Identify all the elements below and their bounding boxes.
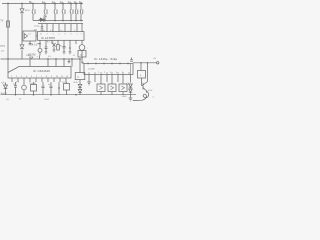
svg-text:IC: 1446μ - 512μ: IC: 1446μ - 512μ bbox=[94, 57, 118, 61]
ground bbox=[129, 98, 133, 101]
wire bbox=[58, 82, 60, 95]
svg-text:12: 12 bbox=[66, 76, 68, 78]
resistor R5 bbox=[64, 84, 70, 91]
diode D8 bbox=[78, 90, 82, 95]
U2 bottom pin wires bbox=[12, 78, 66, 82]
U3 pin ticks bbox=[98, 72, 123, 74]
U2 pin numbers bbox=[11, 76, 68, 78]
svg-text:9: 9 bbox=[51, 76, 52, 78]
svg-text:+: + bbox=[87, 48, 89, 50]
LED D9 bbox=[129, 84, 133, 89]
wire bbox=[79, 59, 81, 84]
wire curved emitter return bbox=[133, 92, 149, 101]
svg-text:1404: 1404 bbox=[44, 99, 50, 101]
wire box to IC bbox=[36, 35, 38, 37]
ground bbox=[69, 52, 72, 54]
capacitor C4 bbox=[62, 4, 65, 21]
svg-text:2: 2 bbox=[16, 76, 17, 78]
bus wire lower bbox=[38, 23, 83, 25]
top supply rail bbox=[2, 3, 83, 5]
svg-text:7V: 7V bbox=[0, 19, 3, 23]
svg-text:3: 3 bbox=[71, 33, 72, 35]
diode D10 bbox=[129, 89, 133, 98]
U3 internal pin ticks bbox=[89, 72, 129, 75]
capacitor C8 electrolytic below U1 bbox=[39, 44, 41, 48]
svg-text:1: 1 bbox=[98, 72, 99, 74]
rail value labels bbox=[29, 0, 82, 4]
terminal +B bbox=[157, 62, 159, 64]
connector box J1 bbox=[97, 84, 105, 92]
svg-text:R: R bbox=[60, 46, 62, 48]
IC U2 CXA1619 body bbox=[8, 67, 71, 79]
svg-text:14V4: 14V4 bbox=[122, 96, 128, 98]
buffer triangle in L4 bbox=[24, 34, 27, 39]
box L4 bbox=[23, 31, 36, 41]
capacitor C2 bbox=[44, 4, 47, 21]
svg-text:0k7R: 0k7R bbox=[74, 82, 79, 84]
ground bbox=[53, 50, 56, 52]
ground bbox=[87, 80, 91, 85]
svg-text:7k 0.5: 7k 0.5 bbox=[31, 45, 38, 47]
svg-text:2: 2 bbox=[104, 72, 105, 74]
zener diode D1 bbox=[20, 9, 24, 13]
resistor R1 on left wire bbox=[7, 21, 10, 27]
svg-text:2: 2 bbox=[59, 33, 60, 35]
svg-text:7: 7 bbox=[37, 57, 39, 59]
capacitor C15 bbox=[50, 82, 53, 95]
svg-text:5: 5 bbox=[53, 33, 54, 35]
svg-text:11: 11 bbox=[40, 33, 42, 35]
junction dots on wire A bbox=[7, 58, 73, 60]
svg-text:10.4μ: 10.4μ bbox=[34, 26, 40, 28]
wire zener branch bbox=[21, 4, 23, 60]
svg-text:1μ: 1μ bbox=[42, 0, 45, 4]
svg-text:7: 7 bbox=[41, 76, 42, 78]
svg-text:3.5V: 3.5V bbox=[148, 90, 153, 92]
svg-text:1μ: 1μ bbox=[74, 0, 77, 4]
svg-text:1: 1 bbox=[77, 33, 78, 35]
svg-text:4: 4 bbox=[116, 72, 117, 74]
svg-text:IC: CXA1619: IC: CXA1619 bbox=[33, 69, 50, 73]
svg-text:100μ16: 100μ16 bbox=[29, 83, 37, 85]
svg-text:1N60: 1N60 bbox=[26, 55, 32, 57]
svg-text:3: 3 bbox=[110, 72, 111, 74]
resistor R8 box bbox=[78, 51, 86, 58]
diode D7 bbox=[78, 85, 82, 90]
svg-text:6: 6 bbox=[36, 76, 37, 78]
capacitor C6 bbox=[75, 4, 78, 21]
wire +B line bbox=[133, 62, 157, 64]
svg-text:1μ: 1μ bbox=[60, 0, 63, 4]
rail junction dots bbox=[7, 3, 82, 5]
diode D2 bbox=[20, 45, 24, 49]
svg-text:(2): (2) bbox=[6, 99, 9, 101]
wire box to transistor base bbox=[142, 78, 144, 86]
capacitor C16 bbox=[130, 58, 133, 62]
label row above IC bbox=[40, 30, 76, 32]
wires wire A to U2 pins bbox=[8, 59, 72, 73]
signal wire A bbox=[1, 58, 81, 60]
svg-text:HT1: HT1 bbox=[1, 45, 6, 48]
svg-text:b: b bbox=[140, 75, 142, 77]
svg-text:4V: 4V bbox=[19, 99, 22, 101]
IC pin wires into top of U1 bbox=[47, 24, 82, 33]
IC U3 body bbox=[84, 64, 133, 75]
svg-text:m: m bbox=[153, 97, 155, 99]
capacitor C12 bbox=[14, 82, 17, 95]
diode D4 body bbox=[40, 18, 43, 22]
capacitor C18 bbox=[45, 44, 48, 52]
svg-text:4.5: 4.5 bbox=[48, 56, 52, 58]
svg-text:IC LA7876: IC LA7876 bbox=[41, 36, 55, 40]
resistor R3 bbox=[57, 45, 60, 51]
capacitor C17 bbox=[41, 24, 44, 32]
IC U1 bottom pin wires bbox=[40, 40, 82, 45]
svg-text:+B: +B bbox=[153, 58, 156, 60]
resistor R6 box bbox=[75, 73, 85, 80]
U3 bottom pin wires bbox=[89, 75, 131, 85]
svg-text:1μ: 1μ bbox=[79, 0, 82, 4]
op-amp U1 IC LA7876 bbox=[38, 32, 85, 41]
svg-text:0.5: 0.5 bbox=[16, 81, 20, 83]
transistor Q1 marks bbox=[53, 43, 56, 50]
svg-text:4: 4 bbox=[47, 33, 48, 35]
transistor Q2 bbox=[143, 82, 148, 92]
svg-text:3: 3 bbox=[21, 76, 22, 78]
wire bbox=[69, 44, 71, 52]
svg-text:4: 4 bbox=[26, 76, 27, 78]
svg-text:T2: T2 bbox=[51, 42, 54, 44]
svg-text:7: 7 bbox=[81, 33, 82, 35]
capacitor C1 bbox=[32, 4, 35, 21]
connector box J3 bbox=[119, 84, 127, 92]
svg-text:8: 8 bbox=[46, 76, 47, 78]
svg-text:L4: L4 bbox=[28, 34, 31, 36]
capacitor C9 bbox=[63, 44, 66, 52]
LED D6 bbox=[4, 83, 8, 95]
connector box J2 bbox=[108, 84, 116, 92]
U3 top edge dots bbox=[87, 63, 129, 65]
svg-text:10: 10 bbox=[56, 76, 58, 78]
wire collector bbox=[147, 63, 149, 82]
capacitor C5 bbox=[70, 4, 73, 21]
bus wire upper bbox=[33, 20, 83, 22]
svg-text:LC209: LC209 bbox=[88, 69, 95, 71]
svg-text:4k: 4k bbox=[73, 55, 75, 57]
wire left vertical bbox=[7, 4, 9, 60]
wire to base resistor bbox=[140, 63, 142, 71]
capacitor C3 bbox=[54, 4, 57, 21]
ground bbox=[45, 52, 48, 54]
capacitor below L4 bbox=[29, 41, 32, 45]
bus junction dots bbox=[44, 20, 82, 22]
svg-text:5a: 5a bbox=[77, 77, 80, 79]
capacitor C10 electrolytic bbox=[79, 45, 85, 51]
svg-text:0μ1: 0μ1 bbox=[13, 84, 17, 86]
svg-text:12V: 12V bbox=[1, 51, 5, 53]
diode D5 inline bbox=[30, 57, 34, 59]
svg-text:5: 5 bbox=[31, 76, 32, 78]
resistor R4 bbox=[31, 85, 37, 92]
svg-text:6: 6 bbox=[65, 33, 66, 35]
svg-text:11: 11 bbox=[61, 76, 63, 78]
ground bbox=[68, 59, 71, 64]
svg-text:1μ: 1μ bbox=[68, 0, 71, 4]
capacitor C13 electrolytic bbox=[22, 85, 27, 90]
capacitor C7 bbox=[80, 4, 83, 21]
ground bbox=[63, 52, 66, 54]
capacitor C14 bbox=[42, 82, 45, 95]
ground rail bbox=[1, 94, 137, 96]
resistor R7 box bbox=[138, 71, 146, 79]
svg-text:1μ: 1μ bbox=[52, 0, 55, 4]
svg-text:1: 1 bbox=[11, 76, 12, 78]
svg-text:5μ: 5μ bbox=[29, 0, 32, 4]
svg-text:SE90: SE90 bbox=[25, 10, 31, 12]
